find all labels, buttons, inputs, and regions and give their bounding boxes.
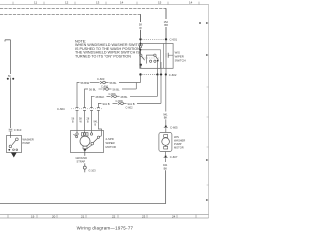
wiper motor box <box>71 131 104 153</box>
svg-text:TURNED TO ITS "ON" POSITION: TURNED TO ITS "ON" POSITION <box>75 55 131 59</box>
svg-text:Wiring diagram—1975-77: Wiring diagram—1975-77 <box>77 226 134 231</box>
connector C-601 <box>143 38 165 40</box>
brush block <box>82 133 89 136</box>
svg-text:56 BL: 56 BL <box>110 81 118 85</box>
wires C-604 down to wiper motor <box>76 110 78 133</box>
wire: pin1 down to bus wire 1 <box>140 76 142 83</box>
svg-text:24: 24 <box>172 214 176 218</box>
svg-text:28 BL: 28 BL <box>121 95 129 99</box>
wire: branch jog to bus wire 2 <box>135 83 137 90</box>
ground point <box>84 163 86 166</box>
wire: dashed feed A (top, to x=166) <box>0 7 166 9</box>
connector C-602 <box>143 74 164 76</box>
connector C-610 <box>9 129 13 131</box>
wire: pin3 down to bus wire 4 <box>160 76 162 104</box>
svg-text:20: 20 <box>52 214 56 218</box>
bottom border tick marks <box>8 215 196 219</box>
ground triangle <box>11 153 17 158</box>
note text block <box>75 39 143 58</box>
svg-text:C-602: C-602 <box>169 73 177 77</box>
svg-text:19: 19 <box>31 214 35 218</box>
bottom border ruler band <box>0 215 209 219</box>
wire: pin4 long run down to washer pump <box>165 76 167 112</box>
svg-text:WASHER: WASHER <box>23 138 34 142</box>
svg-text:13: 13 <box>96 1 100 5</box>
svg-text:C-601: C-601 <box>170 38 178 42</box>
svg-text:GROUND: GROUND <box>76 156 88 160</box>
svg-text:C-605: C-605 <box>170 126 178 130</box>
lower brush square <box>83 146 87 149</box>
svg-text:152: 152 <box>164 20 169 24</box>
wire: dashed feed B (second, to x=140.5) <box>0 13 141 15</box>
svg-text:14: 14 <box>120 1 124 5</box>
wire: left vertical run <box>10 40 12 74</box>
wire from C-601 right pin into capacitor box <box>165 41 167 44</box>
switch inner link <box>147 55 155 63</box>
svg-text:W/S: W/S <box>174 135 179 139</box>
svg-text:PUMP: PUMP <box>23 141 31 145</box>
svg-text:C-607: C-607 <box>170 155 178 159</box>
terminal circle <box>139 45 141 47</box>
connector C-607 <box>165 152 167 156</box>
svg-text:C-604: C-604 <box>57 107 65 111</box>
svg-text:22: 22 <box>112 214 116 218</box>
switch contact A <box>140 54 142 56</box>
switch contact B <box>154 54 156 56</box>
left contact <box>73 134 76 136</box>
svg-text:21: 21 <box>81 214 85 218</box>
capacitor compartment divider <box>163 44 165 69</box>
top border ruler line <box>0 4 209 6</box>
connector C-605 <box>165 125 167 127</box>
svg-text:PUMP: PUMP <box>174 142 182 146</box>
svg-text:WASHER: WASHER <box>174 138 185 142</box>
svg-text:BR: BR <box>164 23 168 27</box>
park switch arm <box>97 136 99 138</box>
svg-text:MOTOR: MOTOR <box>106 145 116 149</box>
junction dot and leads <box>85 145 92 150</box>
svg-text:SWITCH: SWITCH <box>175 58 186 62</box>
svg-text:941 B: 941 B <box>103 102 110 106</box>
svg-text:56 B/W: 56 B/W <box>81 81 90 85</box>
washer pump motor box <box>159 133 172 152</box>
svg-text:C 610: C 610 <box>14 128 22 132</box>
svg-text:28 BLK: 28 BLK <box>96 95 105 99</box>
wire: long run to left edge <box>0 170 166 203</box>
bus wire 4 : 941 BLACK <box>98 103 101 108</box>
svg-text:11: 11 <box>34 1 37 5</box>
capacitor <box>165 44 167 53</box>
stray print dot <box>199 22 201 24</box>
C-604 pin symbols <box>76 107 100 110</box>
switch common junction <box>140 64 142 66</box>
right border ticks <box>207 23 209 200</box>
svg-text:BK: BK <box>164 166 168 170</box>
wire from C-601 left pin into switch <box>140 41 142 46</box>
bus wire 1 : 56 BLUE <box>77 83 80 109</box>
svg-text:BK: BK <box>164 116 168 120</box>
wiper switch inner contact box <box>141 50 161 69</box>
bus wire 2 : 56 BLUE branch <box>85 89 89 108</box>
svg-text:14: 14 <box>189 1 193 5</box>
pump switch contact <box>16 138 19 141</box>
svg-text:941: 941 <box>163 163 168 167</box>
svg-text:C-603: C-603 <box>97 77 105 81</box>
washer pump box <box>7 136 22 153</box>
wire colour tags <box>72 118 99 127</box>
switch contact D <box>154 60 156 62</box>
wiper switch outer box <box>140 44 173 69</box>
svg-text:56 BL: 56 BL <box>113 88 121 92</box>
svg-text:56 BL: 56 BL <box>89 88 97 92</box>
switch pigtails to C-602 <box>158 62 167 74</box>
svg-text:15: 15 <box>158 1 162 5</box>
wire: pin2 down to bus wire 3 <box>157 76 159 97</box>
svg-text:941 B: 941 B <box>128 102 135 106</box>
svg-text:23: 23 <box>142 214 146 218</box>
bus wire 3 : 28 BLACK <box>92 96 95 108</box>
top border tick marks <box>13 2 199 5</box>
right border line <box>208 5 210 218</box>
svg-text:C-602: C-602 <box>126 105 134 109</box>
svg-text:MOTOR: MOTOR <box>174 146 184 150</box>
armature <box>80 136 90 146</box>
svg-text:12: 12 <box>65 1 69 5</box>
switch detent dashed line <box>140 57 160 59</box>
wire label 941 BK lower <box>165 158 167 162</box>
svg-text:STRAP: STRAP <box>77 160 86 164</box>
switch contact C <box>150 60 152 62</box>
motor terminals <box>76 133 78 135</box>
svg-text:G 103: G 103 <box>89 169 97 173</box>
left feed wire stub <box>5 40 11 42</box>
